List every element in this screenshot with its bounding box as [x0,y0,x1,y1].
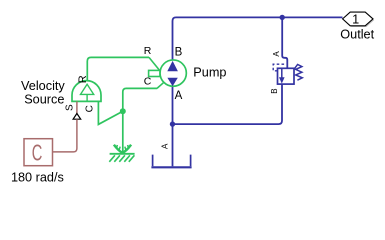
svg-text:Velocity: Velocity [21,79,65,93]
svg-text:Outlet: Outlet [340,27,374,41]
wire: Pump A down to tank [172,86,174,166]
svg-text:R: R [144,45,152,57]
svg-text:A: A [272,51,281,57]
PS constant block C1 [24,139,53,166]
wire: valve B to lower junction [173,84,283,124]
svg-text:B: B [270,88,279,93]
svg-text:180 rad/s: 180 rad/s [11,171,64,185]
junction node at top [280,15,285,20]
svg-text:B: B [175,46,183,58]
pressure relief valve body [278,68,295,84]
valve pilot dashed line [273,64,286,71]
wire: Pump B to Outlet [173,17,343,60]
svg-text:A: A [161,143,170,149]
velocity source dome [72,81,101,102]
wire: junction to valve A [282,17,287,68]
pump bottom triangle [167,78,177,87]
pump U1 circle [160,60,186,86]
svg-text:S: S [65,104,76,111]
pump top triangle [167,61,178,71]
pump icon: C diagonal [157,82,164,88]
junction node lower [170,121,175,126]
outlet port shadow [344,13,374,27]
wire: Pump C to green junction [123,88,157,111]
physical signal stub from S [76,101,78,113]
outlet port 1 [343,12,373,26]
svg-text:C: C [32,140,43,166]
wire: constant block to S port [53,119,77,152]
velocity source arrow [81,84,94,94]
svg-text:C: C [144,75,152,87]
green junction node [120,108,126,114]
wire: Velocity Source R to Pump R [87,57,149,80]
svg-text:R: R [77,75,89,83]
valve spring [294,64,302,80]
pump icon: shaft rect [149,70,160,76]
svg-text:Pump: Pump [193,66,226,80]
valve flow arrow [281,68,283,78]
pump icon: R diagonal [149,57,160,70]
PS input port triangle [73,114,81,120]
tank (reservoir) [153,155,191,167]
svg-text:A: A [175,90,183,102]
svg-text:Source: Source [24,92,64,106]
svg-text:1: 1 [352,12,359,26]
wire: Velocity Source C to green junction [98,101,122,124]
rotational reference ground [109,145,134,162]
svg-text:C: C [85,105,96,112]
wire: green junction to rotational reference [122,111,124,153]
